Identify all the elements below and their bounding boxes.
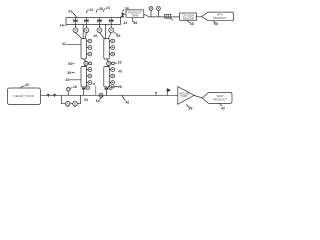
bypass loop (61, 95, 80, 103)
svg-text:SENSOR: SENSOR (183, 17, 194, 21)
svg-text:11: 11 (92, 82, 96, 86)
leader 30 (21, 86, 25, 88)
leader 18 (115, 62, 117, 64)
leader 28 (96, 9, 98, 12)
svg-text:44: 44 (123, 21, 127, 25)
inline valve feed x101 (99, 93, 103, 97)
junction column C feed (83, 95, 84, 96)
feed line (41, 94, 178, 96)
svg-text:56: 56 (214, 22, 218, 26)
leader 36 (133, 21, 135, 22)
svg-text:42: 42 (62, 42, 66, 46)
svg-text:30: 30 (25, 83, 29, 87)
svg-text:34: 34 (65, 78, 69, 82)
svg-text:14: 14 (60, 23, 64, 27)
inter-stage valve left (84, 59, 92, 67)
valve row ball valve B1 (73, 24, 78, 32)
svg-text:26: 26 (118, 85, 122, 89)
svg-text:46: 46 (125, 101, 129, 105)
valve row ball valve B3 (97, 24, 102, 32)
column C permeate ports (87, 68, 92, 85)
manifold bottom rail (66, 23, 121, 25)
svg-text:88: 88 (189, 107, 193, 111)
line sensor to product flag (197, 16, 202, 18)
svg-text:34: 34 (125, 7, 129, 11)
junction column D feed (106, 95, 107, 96)
svg-text:42: 42 (90, 8, 94, 12)
leader 88 (187, 105, 190, 108)
membrane column B (104, 39, 110, 60)
svg-text:36: 36 (67, 71, 71, 75)
feed valve small 1 (47, 94, 49, 97)
svg-text:40: 40 (118, 69, 122, 73)
leader 42 (87, 10, 89, 13)
svg-text:90: 90 (221, 107, 225, 111)
svg-text:64: 64 (96, 99, 100, 103)
svg-text:FEED TANK: FEED TANK (14, 94, 35, 98)
svg-text:24: 24 (106, 6, 110, 10)
funnel into column B (100, 24, 112, 38)
pump P1 (66, 87, 70, 95)
membrane column D (104, 67, 110, 88)
svg-text:46: 46 (93, 34, 97, 38)
valve V1 on manifold (74, 18, 78, 25)
oxygen sensor box (180, 13, 197, 20)
leader 42 left of column A (67, 43, 82, 45)
valve V4 on manifold (109, 18, 113, 25)
column D permeate ports (109, 68, 114, 85)
vent product flag (202, 92, 232, 103)
leader 52 (72, 63, 74, 65)
column A permeate ports (87, 39, 92, 56)
leader 34 top (123, 9, 125, 12)
leader 64 (115, 33, 119, 36)
jet product flag (202, 12, 234, 21)
line pump to vent flag (194, 95, 202, 98)
label 14 (63, 24, 66, 26)
svg-text:VACUUM: VACUUM (179, 93, 189, 96)
product tank (126, 10, 144, 18)
feed tank (7, 88, 40, 104)
column B permeate ports (109, 39, 114, 56)
svg-text:PRODUCT: PRODUCT (213, 97, 227, 101)
column C bottom valve (82, 86, 89, 96)
column D bottom valve (105, 86, 112, 96)
svg-text:28: 28 (99, 7, 103, 11)
svg-text:20: 20 (111, 85, 115, 89)
oxygen sensor stem (187, 20, 189, 22)
svg-text:64: 64 (117, 34, 121, 38)
leader 24 (104, 9, 106, 12)
svg-text:PUMP: PUMP (181, 96, 188, 98)
leader 16 (71, 87, 73, 90)
svg-text:16: 16 (73, 85, 77, 89)
leader 56 (214, 21, 216, 23)
svg-text:18: 18 (118, 60, 122, 64)
svg-text:PRODUCT: PRODUCT (213, 16, 227, 20)
leader 36b (72, 72, 74, 74)
valve V3 on manifold (98, 18, 102, 25)
leader 11 (95, 86, 97, 96)
gauge G2 (157, 7, 161, 17)
manifold left edge (65, 18, 67, 25)
manifold right edge (120, 18, 122, 25)
product line to sensor (144, 14, 180, 17)
valve V5 manifold outlet (121, 13, 127, 17)
valve row ball valve B2 (84, 24, 89, 32)
valve row ball valve B4 (109, 24, 114, 32)
feed valve small 2 (53, 94, 55, 97)
leader 34 (70, 79, 82, 81)
svg-text:58: 58 (190, 22, 194, 26)
valve V2 on manifold (85, 18, 89, 25)
bypass valve 2 (73, 101, 78, 106)
svg-text:62: 62 (69, 10, 73, 14)
svg-text:52: 52 (68, 62, 72, 66)
junction tick (155, 92, 156, 95)
inline component on product line (165, 14, 171, 18)
product tank outlet stem (132, 18, 134, 22)
vacuum pump triangle (178, 87, 194, 105)
flow arrow (167, 88, 170, 95)
manifold top rail (66, 17, 121, 19)
funnel into column A (76, 24, 87, 38)
membrane column C (81, 67, 87, 88)
inter-stage valve right (107, 59, 115, 67)
leader 62 (73, 13, 77, 18)
bypass valve 1 (65, 101, 70, 106)
leader 64b (100, 96, 103, 99)
svg-text:TANK: TANK (131, 14, 138, 18)
leader 90 (220, 104, 223, 106)
svg-text:36: 36 (133, 21, 137, 25)
leader 46 (122, 95, 125, 100)
svg-text:54: 54 (84, 98, 88, 102)
gauge G1 (149, 7, 153, 17)
membrane column A (81, 39, 87, 60)
leader 20 (114, 85, 118, 87)
leader 58 (188, 22, 190, 23)
